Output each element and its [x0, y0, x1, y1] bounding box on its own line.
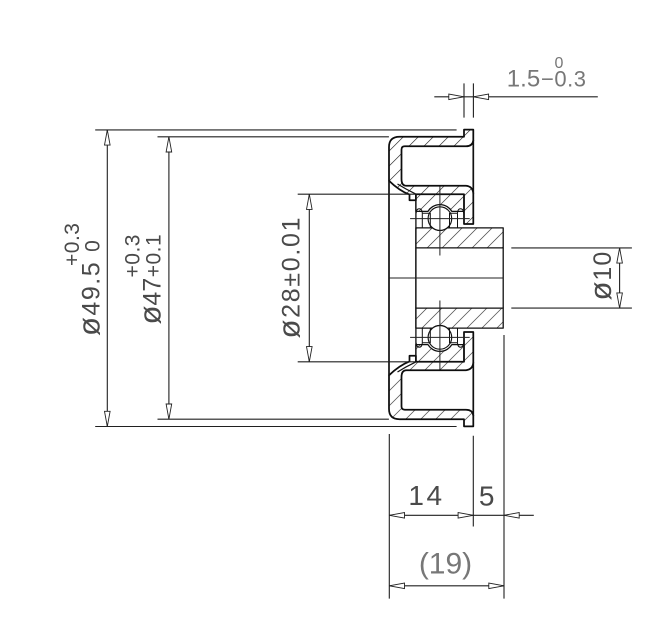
- svg-text:−0.3: −0.3: [541, 67, 586, 92]
- dim (19) dimension line: [389, 585, 504, 587]
- roller right face edge projection lower: [472, 362, 474, 416]
- bearing cage bars lower: [422, 328, 457, 343]
- bearing ball lower: [428, 326, 452, 350]
- bearing seal right lower: [458, 343, 464, 347]
- dim 1.5 extension lines: [464, 83, 473, 117]
- dim ø47 extension lines: [158, 137, 389, 419]
- hub / inner ring upper band: [416, 228, 503, 248]
- bearing ball upper: [428, 207, 452, 231]
- bearing centerline vertical lower: [439, 301, 441, 370]
- bearing centerline vertical upper: [439, 187, 441, 256]
- dim 1.5 dimension line: [434, 96, 598, 98]
- dim ø10 dimension line: [619, 248, 621, 308]
- dim ø28 dimension line: [308, 194, 310, 362]
- svg-text:14: 14: [408, 480, 444, 511]
- dim ø49.5 extension lines: [95, 130, 456, 427]
- dim 14/5/(19) extension lines: [389, 335, 504, 599]
- roller body upper section: [389, 130, 473, 224]
- bearing B2 outer ring lower: [416, 345, 464, 362]
- dim 14-5 dimension line: [389, 514, 534, 516]
- bearing row centerline lower: [410, 336, 470, 338]
- bearing seal left upper: [416, 209, 422, 213]
- roller left face hole edge projection: [388, 181, 390, 376]
- bearing/hub left face edge line: [415, 194, 417, 362]
- recess floor fillet upper: [398, 184, 416, 194]
- svg-text:0: 0: [555, 55, 564, 72]
- hub / inner ring lower band: [416, 308, 503, 328]
- dim ø49.5 dimension line: [106, 130, 108, 427]
- roller body lower section: [389, 332, 473, 426]
- svg-text:+0.1: +0.1: [142, 234, 165, 277]
- bearing cage bars upper: [422, 213, 457, 228]
- svg-text:ø49.5: ø49.5: [72, 261, 107, 336]
- svg-text:ø47: ø47: [132, 278, 167, 325]
- bearing seal left lower: [416, 343, 422, 347]
- dim ø10 extension lines: [511, 248, 632, 308]
- main axis centerline: [389, 277, 503, 279]
- svg-text:ø28±0.01: ø28±0.01: [271, 216, 306, 339]
- svg-text:0: 0: [82, 240, 105, 252]
- roller right face edge projection upper: [472, 140, 474, 194]
- svg-text:1.5: 1.5: [507, 66, 540, 93]
- bearing seal right upper: [458, 209, 464, 213]
- svg-text:5: 5: [479, 481, 495, 512]
- svg-text:+0.3: +0.3: [122, 234, 145, 277]
- bearing row centerline upper: [410, 218, 470, 220]
- recess floor fillet lower: [398, 362, 416, 372]
- hub bore side edges: [416, 248, 503, 308]
- bearing B1 outer ring upper: [416, 194, 464, 211]
- dim ø28 extension lines: [298, 194, 416, 362]
- svg-text:(19): (19): [419, 548, 472, 581]
- svg-text:ø10: ø10: [583, 251, 618, 301]
- dim ø47 dimension line: [168, 137, 170, 419]
